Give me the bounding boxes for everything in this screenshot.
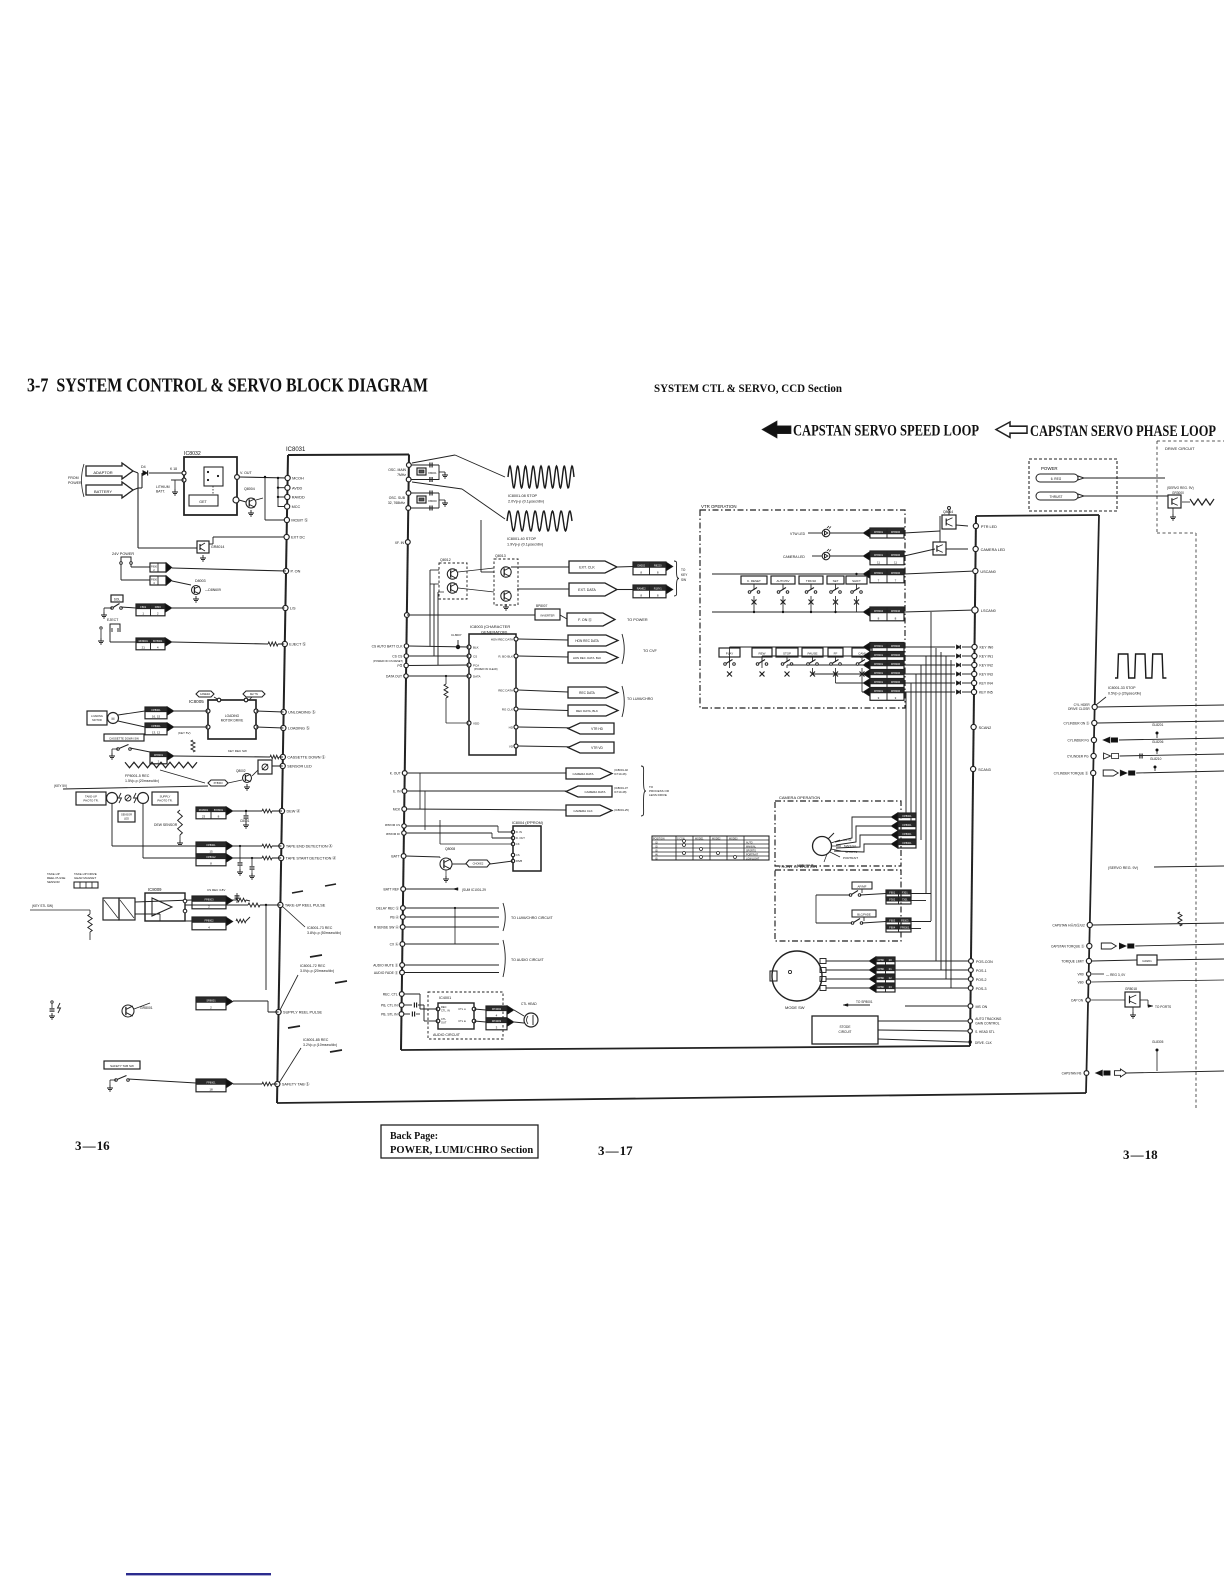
svg-text:MANUAL: MANUAL bbox=[746, 846, 757, 849]
svg-text:IC8003 (CHARACTER: IC8003 (CHARACTER bbox=[470, 624, 510, 629]
svg-text:CS CS: CS CS bbox=[392, 654, 403, 658]
svg-text:MCBIT Ⓢ: MCBIT Ⓢ bbox=[291, 518, 308, 523]
svg-text:FP8003: FP8003 bbox=[204, 897, 214, 901]
svg-text:FP80: FP80 bbox=[878, 967, 885, 971]
svg-text:FP8046: FP8046 bbox=[891, 609, 901, 613]
svg-text:TAKE-UP REEL PULSE: TAKE-UP REEL PULSE bbox=[285, 904, 326, 908]
svg-text:IC8001-33 STOP: IC8001-33 STOP bbox=[1108, 686, 1136, 690]
svg-text:K. RESET: K. RESET bbox=[747, 579, 761, 583]
svg-text:HON REC DATA: HON REC DATA bbox=[575, 639, 599, 643]
svg-text:KEY 5V: KEY 5V bbox=[250, 693, 259, 696]
svg-text:POWER, LUMI/CHRO Section: POWER, LUMI/CHRO Section bbox=[390, 1145, 533, 1156]
svg-text:TO LUMI/CHRO: TO LUMI/CHRO bbox=[627, 697, 653, 701]
svg-text:IC710-48): IC710-48) bbox=[614, 790, 627, 794]
svg-text:KEY IN0: KEY IN0 bbox=[980, 646, 994, 650]
svg-text:CYLINDER PG: CYLINDER PG bbox=[1067, 755, 1089, 759]
svg-text:FP80: FP80 bbox=[878, 976, 885, 980]
svg-text:(POWER ON CS RESET): (POWER ON CS RESET) bbox=[373, 659, 403, 663]
svg-text:MS ON: MS ON bbox=[975, 1005, 987, 1009]
svg-text:(1): (1) bbox=[655, 842, 658, 845]
svg-text:FP8006: FP8006 bbox=[891, 689, 901, 693]
svg-text:POSITION: POSITION bbox=[653, 838, 665, 841]
svg-text:POS-2: POS-2 bbox=[976, 978, 987, 982]
svg-text:MCC: MCC bbox=[292, 505, 301, 509]
svg-text:RF8001: RF8001 bbox=[139, 639, 149, 643]
svg-text:(KEY STL SW): (KEY STL SW) bbox=[32, 904, 53, 908]
svg-text:GR201: GR201 bbox=[1142, 959, 1152, 963]
svg-text:SAFETY TAB Ⓢ: SAFETY TAB Ⓢ bbox=[282, 1082, 310, 1087]
svg-text:CAMERA LED: CAMERA LED bbox=[981, 548, 1006, 552]
svg-text:I²PROM DI: I²PROM DI bbox=[386, 832, 400, 836]
svg-text:PTR LED: PTR LED bbox=[981, 525, 997, 529]
svg-text:BP8007: BP8007 bbox=[536, 604, 548, 608]
svg-text:32, 768kHz: 32, 768kHz bbox=[388, 501, 405, 505]
svg-text:CYLINDER ON Ⓢ: CYLINDER ON Ⓢ bbox=[1063, 721, 1090, 726]
svg-text:DRVE. CLK: DRVE. CLK bbox=[975, 1041, 993, 1045]
svg-text:MOTOR: MOTOR bbox=[92, 718, 102, 722]
svg-text:Q8004: Q8004 bbox=[244, 487, 255, 491]
svg-text:(SERVO REG. 9V): (SERVO REG. 9V) bbox=[1167, 486, 1194, 490]
svg-text:D4: D4 bbox=[141, 465, 146, 469]
svg-text:3 — 16: 3 — 16 bbox=[75, 1138, 110, 1153]
svg-text:DATA OUT: DATA OUT bbox=[386, 674, 402, 678]
svg-text:OSC. SUB: OSC. SUB bbox=[389, 496, 406, 500]
svg-text:GL8210: GL8210 bbox=[1150, 757, 1162, 761]
svg-text:(5): (5) bbox=[655, 858, 658, 861]
svg-text:GR8018: GR8018 bbox=[1125, 987, 1137, 991]
svg-text:3-7 SYSTEM CONTROL & SERVO BL: 3-7 SYSTEM CONTROL & SERVO BLOCK DIAGRAM bbox=[27, 375, 428, 397]
svg-text:RAVDD: RAVDD bbox=[292, 496, 305, 500]
svg-text:FF: FF bbox=[834, 652, 838, 656]
svg-text:CAMERA DATA: CAMERA DATA bbox=[584, 790, 605, 794]
svg-text:K. OUT: K. OUT bbox=[390, 772, 401, 776]
svg-text:Q8008: Q8008 bbox=[445, 847, 455, 851]
svg-text:FP8006: FP8006 bbox=[891, 653, 901, 657]
svg-text:XF. IN: XF. IN bbox=[395, 541, 405, 545]
svg-text:IC8001-73 REC: IC8001-73 REC bbox=[307, 926, 333, 930]
svg-text:XT8003: XT8003 bbox=[213, 781, 223, 785]
svg-text:POWER: POWER bbox=[1041, 466, 1058, 471]
svg-text:EXT DC: EXT DC bbox=[291, 536, 305, 540]
svg-text:16, 15: 16, 15 bbox=[152, 715, 161, 719]
svg-text:R8220: R8220 bbox=[654, 563, 662, 567]
svg-text:CASSETTE DOWN Ⓢ: CASSETTE DOWN Ⓢ bbox=[287, 755, 325, 760]
svg-text:TO SP8001: TO SP8001 bbox=[856, 1000, 873, 1004]
svg-text:TO CVF: TO CVF bbox=[643, 649, 658, 653]
svg-text:GL8206: GL8206 bbox=[1152, 740, 1164, 744]
svg-text:D8002: D8002 bbox=[637, 563, 645, 567]
svg-text:FP8001: FP8001 bbox=[902, 832, 912, 836]
svg-text:X8001: X8001 bbox=[428, 471, 437, 475]
svg-text:PB Ⓐ: PB Ⓐ bbox=[390, 915, 399, 920]
svg-text:IC8001-85 REC: IC8001-85 REC bbox=[303, 1038, 329, 1042]
svg-text:LOADING: LOADING bbox=[91, 714, 103, 718]
svg-text:23: 23 bbox=[202, 815, 206, 819]
svg-text:VTR HD: VTR HD bbox=[591, 727, 604, 731]
svg-text:LITHIUM: LITHIUM bbox=[156, 485, 170, 489]
svg-text:CTL. IN: CTL. IN bbox=[441, 1009, 450, 1013]
svg-text:SUPPLY REEL PULSE: SUPPLY REEL PULSE bbox=[283, 1011, 322, 1015]
svg-text:SENSOR: SENSOR bbox=[121, 813, 132, 817]
svg-text:F. ON Ⓢ: F. ON Ⓢ bbox=[578, 617, 592, 622]
svg-text:FP8004: FP8004 bbox=[874, 609, 884, 613]
svg-text:—D8N609: —D8N609 bbox=[205, 588, 221, 592]
svg-text:Q8012: Q8012 bbox=[440, 558, 451, 562]
svg-text:FP4002: FP4002 bbox=[492, 1007, 502, 1011]
svg-text:FP8006: FP8006 bbox=[891, 680, 901, 684]
svg-text:(SUM IC1001-29: (SUM IC1001-29 bbox=[462, 888, 486, 892]
svg-text:FP8001: FP8001 bbox=[154, 753, 164, 757]
svg-text:LSCAN0: LSCAN0 bbox=[981, 609, 996, 613]
svg-text:EJECT Ⓢ: EJECT Ⓢ bbox=[289, 642, 306, 647]
svg-text:PAUSE: PAUSE bbox=[808, 652, 818, 656]
svg-text:PORTRAIT: PORTRAIT bbox=[843, 856, 858, 860]
svg-text:FP8001: FP8001 bbox=[902, 823, 912, 827]
svg-text:VTR VD: VTR VD bbox=[591, 746, 603, 750]
svg-text:IC8031: IC8031 bbox=[286, 447, 306, 453]
svg-text:CAMERA LED: CAMERA LED bbox=[783, 555, 805, 559]
svg-text:CAP ON: CAP ON bbox=[1071, 999, 1084, 1003]
svg-text:F302: F302 bbox=[889, 897, 895, 901]
svg-text:CYLINDER TORQUE Ⓢ: CYLINDER TORQUE Ⓢ bbox=[1054, 771, 1089, 776]
svg-text:GR8001: GR8001 bbox=[140, 1006, 153, 1010]
svg-text:ADAPTOR: ADAPTOR bbox=[93, 470, 112, 475]
svg-text:PCA: PCA bbox=[473, 663, 479, 667]
svg-text:BATT.: BATT. bbox=[156, 490, 165, 494]
svg-text:(KEY 5V): (KEY 5V) bbox=[178, 731, 190, 735]
svg-text:CS: CS bbox=[516, 853, 520, 857]
svg-text:DRIVE CLOSR: DRIVE CLOSR bbox=[1068, 707, 1090, 711]
svg-text:AUDIO MUTE Ⓢ: AUDIO MUTE Ⓢ bbox=[373, 963, 399, 968]
svg-text:7MHz: 7MHz bbox=[397, 473, 406, 477]
svg-text:L/S: L/S bbox=[290, 607, 296, 611]
svg-text:PHOTO TR.: PHOTO TR. bbox=[157, 799, 172, 803]
svg-text:FP8001: FP8001 bbox=[874, 553, 884, 557]
svg-text:F8003: F8003 bbox=[901, 918, 909, 922]
svg-text:0.5Vp-p (20μsec/div): 0.5Vp-p (20μsec/div) bbox=[1108, 692, 1141, 696]
svg-text:PHOTO TR.: PHOTO TR. bbox=[83, 799, 98, 803]
svg-text:TO POWER: TO POWER bbox=[627, 618, 648, 622]
svg-text:CX Ⓐ: CX Ⓐ bbox=[390, 942, 399, 947]
svg-text:KEY IN5: KEY IN5 bbox=[979, 691, 993, 695]
svg-text:FROM: FROM bbox=[68, 476, 79, 480]
svg-text:FP80: FP80 bbox=[878, 985, 885, 989]
svg-text:CAPSTAN SERVO PHASE LOOP: CAPSTAN SERVO PHASE LOOP bbox=[1030, 423, 1216, 440]
svg-text:POS-1: POS-1 bbox=[976, 969, 987, 973]
svg-text:CASSETTE DOWN SW: CASSETTE DOWN SW bbox=[109, 737, 139, 741]
svg-text:EXT. CLK: EXT. CLK bbox=[579, 565, 595, 569]
svg-text:CS AUTO BATT CLK: CS AUTO BATT CLK bbox=[372, 644, 404, 648]
svg-text:IC8004 (E²PROM): IC8004 (E²PROM) bbox=[512, 821, 544, 825]
svg-text:SAFETY TAB SW: SAFETY TAB SW bbox=[110, 1064, 134, 1068]
svg-text:UNLOADING Ⓢ: UNLOADING Ⓢ bbox=[288, 710, 316, 715]
svg-text:SYSTEM CTL & SERVO, CCD Sectio: SYSTEM CTL & SERVO, CCD Section bbox=[654, 383, 843, 395]
svg-text:FP8001: FP8001 bbox=[902, 814, 912, 818]
svg-text:CTL ⊕: CTL ⊕ bbox=[458, 1019, 467, 1023]
svg-text:FP8001: FP8001 bbox=[902, 841, 912, 845]
svg-text:EXT. DATA: EXT. DATA bbox=[578, 588, 596, 592]
svg-text:FP8006: FP8006 bbox=[891, 662, 901, 666]
svg-text:POWER: POWER bbox=[68, 481, 82, 485]
svg-text:VR0: VR0 bbox=[1077, 973, 1083, 977]
svg-text:CHOKE2: CHOKE2 bbox=[473, 862, 484, 866]
svg-text:FP8001: FP8001 bbox=[151, 708, 161, 712]
svg-text:IC8009: IC8009 bbox=[148, 887, 162, 892]
svg-text:(POWER ON CLEAR): (POWER ON CLEAR) bbox=[474, 668, 498, 671]
svg-text:IC8032: IC8032 bbox=[184, 451, 201, 457]
svg-text:(KEY 5V): (KEY 5V) bbox=[54, 784, 67, 788]
svg-text:CS REC 3.8V: CS REC 3.8V bbox=[207, 888, 225, 892]
svg-text:TO LUMI/CHRO CIRCUIT: TO LUMI/CHRO CIRCUIT bbox=[511, 916, 553, 920]
svg-text:3 — 17: 3 — 17 bbox=[598, 1143, 633, 1158]
svg-text:CTL: CTL bbox=[441, 1017, 446, 1021]
svg-text:SENSOR: SENSOR bbox=[47, 880, 61, 884]
svg-text:CAPSTAN SERVO SPEED LOOP: CAPSTAN SERVO SPEED LOOP bbox=[793, 423, 979, 440]
svg-text:TRK/32: TRK/32 bbox=[806, 579, 817, 583]
svg-text:X8000: X8000 bbox=[428, 499, 437, 503]
svg-text:LOW LIGHT: LOW LIGHT bbox=[746, 858, 760, 861]
svg-text:PORTRAIT: PORTRAIT bbox=[746, 854, 759, 857]
svg-text:PG̅: PG̅ bbox=[397, 664, 402, 668]
svg-text:FP8012: FP8012 bbox=[206, 855, 216, 859]
svg-text:F301: F301 bbox=[902, 890, 908, 894]
svg-text:2.0Vp-p (0.1μsec/div): 2.0Vp-p (0.1μsec/div) bbox=[508, 500, 545, 504]
svg-text:R SENSE SW Ⓐ: R SENSE SW Ⓐ bbox=[374, 925, 400, 930]
svg-text:K 18: K 18 bbox=[170, 467, 177, 471]
svg-text:D8003: D8003 bbox=[195, 579, 206, 583]
svg-text:KEY IN3: KEY IN3 bbox=[979, 673, 993, 677]
svg-text:SR8001: SR8001 bbox=[206, 998, 216, 1002]
svg-text:RAME2: RAME2 bbox=[637, 586, 646, 590]
svg-text:CL8007: CL8007 bbox=[451, 633, 462, 637]
svg-text:DEW Ⓐ: DEW Ⓐ bbox=[286, 809, 300, 814]
svg-text:AUTO/SV: AUTO/SV bbox=[776, 579, 789, 583]
svg-text:FP8001: FP8001 bbox=[874, 571, 884, 575]
svg-text:I²PROM CS: I²PROM CS bbox=[385, 823, 400, 827]
svg-text:15: 15 bbox=[209, 850, 213, 854]
svg-text:P. ON: P. ON bbox=[291, 570, 301, 574]
svg-text:RS/B: RS/B bbox=[516, 859, 522, 863]
svg-text:IC710-46): IC710-46) bbox=[614, 772, 627, 776]
svg-text:FP4003: FP4003 bbox=[492, 1019, 502, 1023]
svg-text:SCAN3: SCAN3 bbox=[978, 768, 991, 772]
svg-text:DATA: DATA bbox=[473, 674, 481, 678]
svg-text:KEY IN4: KEY IN4 bbox=[979, 682, 993, 686]
svg-text:AF/MF: AF/MF bbox=[858, 885, 867, 889]
svg-text:HON REC DATA: HON REC DATA bbox=[491, 637, 513, 641]
svg-text:IC8001-72 REC: IC8001-72 REC bbox=[300, 964, 326, 968]
svg-text:GAIN CONTROL: GAIN CONTROL bbox=[975, 1022, 999, 1026]
svg-text:13, 12: 13, 12 bbox=[152, 731, 161, 735]
svg-text:FP80: FP80 bbox=[878, 958, 885, 962]
svg-text:(SERVO REG. 9V): (SERVO REG. 9V) bbox=[1108, 866, 1138, 870]
svg-text:IC4001: IC4001 bbox=[439, 996, 451, 1000]
svg-text:OSC. MAIN: OSC. MAIN bbox=[388, 468, 406, 472]
svg-text:TO PORTS: TO PORTS bbox=[1155, 1005, 1171, 1009]
svg-text:GET: GET bbox=[199, 500, 207, 504]
svg-text:D. OUT: D. OUT bbox=[516, 836, 525, 840]
svg-text:POS-3: POS-3 bbox=[976, 987, 987, 991]
svg-text:LENS DRIVE: LENS DRIVE bbox=[649, 793, 667, 797]
svg-text:11: 11 bbox=[894, 561, 897, 565]
svg-text:IC8005: IC8005 bbox=[189, 699, 204, 704]
svg-text:DELAY REC Ⓢ: DELAY REC Ⓢ bbox=[376, 906, 399, 911]
svg-text:MODE3: MODE3 bbox=[729, 838, 738, 841]
svg-text:TO: TO bbox=[681, 568, 686, 572]
svg-text:3.2Vp-p (10msec/div): 3.2Vp-p (10msec/div) bbox=[303, 1043, 337, 1047]
svg-text:REC. CTL: REC. CTL bbox=[383, 993, 398, 997]
svg-text:FP8001: FP8001 bbox=[900, 925, 910, 929]
svg-text:FP8006: FP8006 bbox=[891, 530, 901, 534]
svg-text:VTR OPERATION: VTR OPERATION bbox=[701, 504, 737, 509]
svg-text:FP8006: FP8006 bbox=[891, 571, 901, 575]
svg-text:CTL ⊝: CTL ⊝ bbox=[458, 1007, 467, 1011]
svg-text:CAPSTAN FB: CAPSTAN FB bbox=[1062, 1072, 1082, 1076]
svg-text:REC DATA, BLK: REC DATA, BLK bbox=[576, 709, 598, 713]
svg-text:CAMERA CLK: CAMERA CLK bbox=[573, 809, 592, 813]
svg-text:MODE SW: MODE SW bbox=[785, 1005, 805, 1010]
svg-text:SCAN2: SCAN2 bbox=[979, 726, 992, 730]
svg-text:INVERTER: INVERTER bbox=[540, 614, 554, 618]
svg-text:VTW LED: VTW LED bbox=[790, 532, 806, 536]
svg-text:F800: F800 bbox=[151, 565, 157, 569]
svg-text:F800: F800 bbox=[151, 578, 157, 582]
svg-text:11: 11 bbox=[877, 561, 880, 565]
svg-text:DRIVE CIRCUIT: DRIVE CIRCUIT bbox=[1165, 446, 1195, 451]
svg-text:Q8064: Q8064 bbox=[943, 510, 953, 514]
svg-text:FP8001: FP8001 bbox=[874, 653, 884, 657]
svg-text:KEY IN2: KEY IN2 bbox=[979, 664, 993, 668]
svg-text:LOADING: LOADING bbox=[225, 714, 240, 718]
svg-text:KEY IN1: KEY IN1 bbox=[979, 655, 993, 659]
svg-text:18: 18 bbox=[209, 1088, 213, 1092]
svg-text:LOADING Ⓢ: LOADING Ⓢ bbox=[288, 726, 310, 731]
svg-text:C8001: C8001 bbox=[240, 819, 250, 823]
svg-text:GEAR MAGNET: GEAR MAGNET bbox=[74, 876, 96, 880]
svg-text:CS: CS bbox=[473, 654, 477, 658]
svg-text:3.0Vp-p (20msec/div): 3.0Vp-p (20msec/div) bbox=[300, 969, 334, 973]
svg-text:(3): (3) bbox=[655, 850, 658, 853]
svg-text:BATT: BATT bbox=[391, 855, 399, 859]
svg-text:F803: F803 bbox=[889, 918, 895, 922]
svg-text:FP8001: FP8001 bbox=[206, 843, 216, 847]
svg-text:SHIFT: SHIFT bbox=[852, 579, 861, 583]
svg-text:FP8006: FP8006 bbox=[891, 644, 901, 648]
svg-text:OUT: OUT bbox=[441, 1021, 447, 1025]
svg-text:FP8001: FP8001 bbox=[874, 689, 884, 693]
svg-text:FP8006: FP8006 bbox=[891, 671, 901, 675]
svg-text:KEY REC SW: KEY REC SW bbox=[228, 749, 247, 753]
svg-text:SENSOR LED: SENSOR LED bbox=[287, 765, 312, 769]
svg-text:CK: CK bbox=[516, 842, 520, 846]
svg-text:POS-CON: POS-CON bbox=[976, 960, 993, 964]
svg-text:1.9Vp-p (0.1μsec/div): 1.9Vp-p (0.1μsec/div) bbox=[507, 543, 544, 547]
svg-text:Q8002: Q8002 bbox=[236, 769, 246, 773]
svg-text:VDD: VDD bbox=[473, 721, 480, 725]
svg-text:3.8Vp-p (50msec/div): 3.8Vp-p (50msec/div) bbox=[307, 931, 341, 935]
svg-text:(4): (4) bbox=[655, 854, 658, 857]
svg-text:FRONT OPERATION: FRONT OPERATION bbox=[779, 864, 817, 869]
svg-text:MCK: MCK bbox=[393, 808, 401, 812]
svg-text:AVDD: AVDD bbox=[292, 486, 303, 490]
svg-text:S. HEAD STL: S. HEAD STL bbox=[975, 1030, 995, 1034]
svg-text:MODE2: MODE2 bbox=[712, 838, 721, 841]
svg-text:REC DATA: REC DATA bbox=[579, 691, 596, 695]
svg-text:FP8001: FP8001 bbox=[206, 1080, 216, 1084]
svg-text:F804: F804 bbox=[889, 925, 895, 929]
svg-text:FP8001: FP8001 bbox=[874, 662, 884, 666]
svg-text:M: M bbox=[112, 717, 115, 721]
svg-text:— REG 3, 0V: — REG 3, 0V bbox=[1106, 973, 1126, 977]
svg-text:7301: 7301 bbox=[902, 897, 908, 901]
svg-text:GR3000: GR3000 bbox=[1172, 491, 1184, 495]
svg-text:FP8001: FP8001 bbox=[874, 644, 884, 648]
svg-text:RG CLK: RG CLK bbox=[502, 707, 513, 711]
svg-text:CYLINDER FG: CYLINDER FG bbox=[1068, 739, 1090, 743]
svg-text:BATT REF: BATT REF bbox=[384, 888, 400, 892]
svg-text:MOTOR DRIVE: MOTOR DRIVE bbox=[221, 719, 243, 723]
svg-text:CAPSTAN HⒶ/SⓈ/U2: CAPSTAN HⒶ/SⓈ/U2 bbox=[1052, 923, 1085, 928]
svg-text:FP8001: FP8001 bbox=[874, 680, 884, 684]
svg-text:F803: F803 bbox=[155, 605, 161, 609]
svg-text:R, BO BLK: R, BO BLK bbox=[498, 654, 513, 658]
svg-text:USCAN0: USCAN0 bbox=[980, 570, 995, 574]
svg-text:SPORTS: SPORTS bbox=[746, 850, 756, 853]
svg-text:REW: REW bbox=[759, 652, 766, 656]
svg-text:REC DATA: REC DATA bbox=[498, 688, 513, 692]
svg-text:BATTERY: BATTERY bbox=[94, 489, 112, 494]
svg-text:MCOH: MCOH bbox=[292, 477, 304, 481]
svg-text:F801: F801 bbox=[140, 605, 146, 609]
svg-text:KEY: KEY bbox=[681, 573, 688, 577]
svg-text:E. IN: E. IN bbox=[393, 790, 401, 794]
svg-text:FP8001: FP8001 bbox=[874, 530, 884, 534]
svg-text:3 — 18: 3 — 18 bbox=[1123, 1147, 1158, 1162]
svg-text:GR8014: GR8014 bbox=[211, 545, 224, 549]
svg-text:FP8002: FP8002 bbox=[204, 918, 214, 922]
svg-text:CAPSTAN TORQUE Ⓢ: CAPSTAN TORQUE Ⓢ bbox=[1051, 944, 1085, 949]
svg-text:Q8013: Q8013 bbox=[495, 554, 506, 558]
svg-text:LED: LED bbox=[124, 817, 129, 821]
svg-text:(2): (2) bbox=[655, 846, 658, 849]
svg-text:SET: SET bbox=[833, 579, 839, 583]
svg-text:AUTO: AUTO bbox=[746, 842, 753, 845]
svg-text:24V POWER: 24V POWER bbox=[112, 552, 134, 556]
svg-text:6. REG: 6. REG bbox=[1051, 477, 1062, 481]
svg-text:CAMERA OPERATION: CAMERA OPERATION bbox=[779, 795, 820, 800]
svg-text:REC: REC bbox=[441, 1005, 447, 1009]
svg-text:FP8001: FP8001 bbox=[151, 724, 161, 728]
svg-text:SW: SW bbox=[681, 578, 686, 582]
svg-text:STOP: STOP bbox=[783, 652, 791, 656]
svg-text:AUTO TRACKING: AUTO TRACKING bbox=[975, 1017, 1002, 1021]
svg-text:HON REC. DATA. BLK: HON REC. DATA. BLK bbox=[573, 656, 601, 660]
svg-text:EJECT: EJECT bbox=[107, 618, 119, 622]
svg-text:STODE: STODE bbox=[840, 1025, 851, 1029]
svg-text:BLC/FADE: BLC/FADE bbox=[857, 913, 871, 917]
svg-text:FP8001: FP8001 bbox=[874, 671, 884, 675]
svg-text:VB0: VB0 bbox=[1077, 981, 1083, 985]
svg-text:D. IN: D. IN bbox=[516, 830, 522, 834]
svg-text:PB, CTL IN: PB, CTL IN bbox=[381, 1004, 398, 1008]
svg-text:Back Page:: Back Page: bbox=[390, 1131, 438, 1142]
svg-text:21: 21 bbox=[142, 646, 146, 650]
svg-text:CAMERA DATA: CAMERA DATA bbox=[572, 772, 593, 776]
svg-text:GL8201: GL8201 bbox=[1152, 723, 1164, 727]
svg-text:GL8305: GL8305 bbox=[1152, 1040, 1164, 1044]
svg-text:1.5Vp-p (20msec/div): 1.5Vp-p (20msec/div) bbox=[125, 779, 159, 783]
svg-text:BLK: BLK bbox=[473, 645, 479, 649]
